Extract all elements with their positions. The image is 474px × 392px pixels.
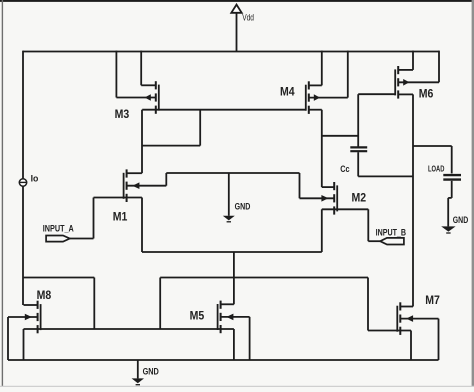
wire LOAD to ground bbox=[448, 181, 452, 227]
wire M2 bulk jog bbox=[299, 173, 301, 198]
transistor M8 bbox=[25, 301, 41, 334]
svg-text:GND: GND bbox=[453, 215, 469, 225]
wire GND bottom stem bbox=[137, 360, 139, 378]
wire M6 drain lead bbox=[398, 93, 413, 95]
transistor M7 bbox=[397, 302, 413, 335]
current source Io bbox=[19, 179, 26, 186]
wire M3 bulk to Vdd bbox=[116, 51, 155, 98]
wire node to Cc branch bbox=[322, 135, 358, 137]
wire bulk run bbox=[166, 172, 299, 174]
svg-text:M8: M8 bbox=[37, 288, 52, 302]
wire M7 drain lead bbox=[400, 306, 413, 308]
transistor M5 bbox=[218, 301, 234, 334]
wire M8 gate segment bbox=[23, 278, 94, 330]
ground LOAD bbox=[441, 226, 455, 233]
svg-text:Io: Io bbox=[31, 173, 39, 183]
wire M5 bulk to bottom rail bbox=[221, 317, 250, 360]
ground bottom bbox=[132, 378, 144, 384]
wire M6 bulk to Vdd bbox=[398, 51, 439, 83]
wire M4 source to Vdd bbox=[309, 51, 322, 86]
wire M7 gate and source line bbox=[368, 330, 411, 332]
wire tail to M5 drain bbox=[233, 252, 235, 304]
wire M3 drain to M1 drain bbox=[141, 110, 143, 174]
svg-text:INPUT_B: INPUT_B bbox=[376, 228, 407, 238]
wire sources rail bbox=[24, 328, 234, 330]
border frame bbox=[0, 0, 474, 2]
wire M8 source drop bbox=[23, 329, 25, 360]
svg-text:GND: GND bbox=[143, 366, 159, 376]
wire M7 bulk to bottom rail bbox=[400, 319, 438, 360]
Vdd supply arrow bbox=[231, 5, 241, 52]
wire mirror gate bus bbox=[160, 278, 368, 330]
wire M8 drain lead bbox=[24, 304, 38, 306]
wire M1 bulk jog bbox=[165, 173, 167, 186]
wire M2 bulk lead bbox=[300, 197, 335, 199]
svg-text:M3: M3 bbox=[115, 107, 130, 121]
svg-text:M6: M6 bbox=[419, 86, 434, 100]
wire M4 drain lead bbox=[309, 109, 322, 111]
input tag INPUT_A bbox=[46, 236, 70, 242]
wire Cc bottom to output bbox=[358, 152, 413, 176]
transistor M2 bbox=[321, 182, 337, 215]
wire left branch upper bbox=[22, 51, 24, 179]
transistor M4 bbox=[306, 81, 320, 114]
input tag INPUT_B bbox=[380, 238, 404, 245]
svg-text:Vdd: Vdd bbox=[242, 12, 254, 22]
wire tail node bbox=[142, 251, 322, 253]
wire M6 gate horizontal bbox=[358, 93, 395, 95]
wire M2 source down bbox=[321, 209, 323, 252]
wire M3 drain and gate bus to M4 gate bbox=[142, 109, 306, 111]
wire output to LOAD bbox=[413, 146, 452, 173]
wire M6 source to Vdd bbox=[398, 51, 413, 70]
wire M5 drain lead bbox=[221, 303, 234, 305]
svg-text:LOAD: LOAD bbox=[428, 163, 444, 173]
svg-text:M7: M7 bbox=[425, 293, 440, 307]
svg-text:INPUT_A: INPUT_A bbox=[43, 224, 74, 234]
wire M1 drain lead bbox=[127, 172, 142, 174]
wire output vertical bbox=[412, 94, 414, 306]
wire M1 source down bbox=[141, 198, 143, 253]
wire left branch lower bbox=[22, 186, 24, 305]
capacitor LOAD bbox=[443, 175, 461, 180]
svg-text:M2: M2 bbox=[352, 191, 367, 205]
wire M8 bulk to bottom rail bbox=[8, 317, 38, 360]
wire M4 bulk to Vdd bbox=[309, 51, 348, 98]
wire M2 drain lead bbox=[322, 186, 334, 188]
wire M1 bulk lead bbox=[127, 185, 167, 187]
transistor M6 bbox=[395, 66, 409, 99]
svg-text:GND: GND bbox=[235, 202, 251, 212]
wire M3 diode loop bbox=[142, 110, 200, 146]
ground middle bbox=[223, 216, 235, 222]
wire GND stem bbox=[228, 173, 230, 216]
wire M2 gate and source line bbox=[322, 208, 369, 210]
wire M7 gate riser bbox=[367, 278, 369, 331]
wire M7 source drop bbox=[410, 331, 412, 361]
wire INPUT_A to M1 gate bbox=[70, 198, 94, 239]
transistor M1 bbox=[124, 169, 140, 202]
transistor M3 bbox=[145, 81, 159, 114]
svg-text:M4: M4 bbox=[280, 85, 295, 99]
svg-text:M1: M1 bbox=[113, 210, 128, 224]
wire bottom rail bbox=[8, 359, 439, 361]
svg-text:M5: M5 bbox=[190, 308, 205, 322]
wire sources rail drop bbox=[233, 329, 235, 360]
wire M6 gate vertical bbox=[357, 94, 359, 146]
capacitor Cc bbox=[350, 147, 367, 151]
wire INPUT_B to M2 gate bbox=[368, 209, 380, 241]
wire M1 gate and source line bbox=[94, 197, 142, 199]
svg-text:Cc: Cc bbox=[340, 164, 349, 174]
wire M4 drain to M2 drain bbox=[321, 110, 323, 187]
wire Vdd rail bbox=[23, 51, 439, 53]
wire M3 source to Vdd bbox=[141, 51, 156, 86]
